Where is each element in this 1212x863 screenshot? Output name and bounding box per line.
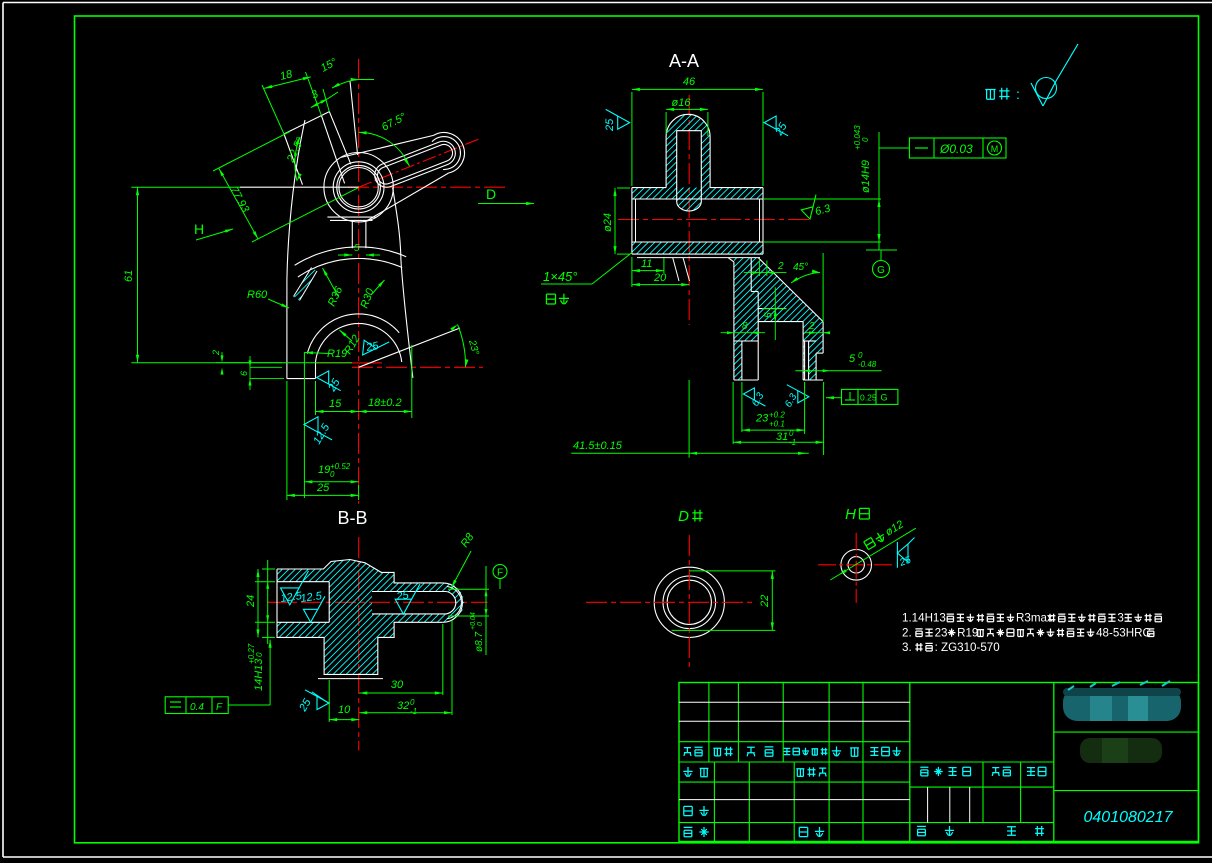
svg-text:19: 19 <box>318 464 330 476</box>
svg-text:10: 10 <box>338 704 351 716</box>
svg-text:30: 30 <box>391 679 404 691</box>
svg-text:31: 31 <box>776 431 788 443</box>
svg-text:32: 32 <box>397 700 409 712</box>
svg-text:18±0.2: 18±0.2 <box>368 397 402 409</box>
svg-text:0: 0 <box>410 698 415 707</box>
svg-text:F: F <box>216 702 223 713</box>
svg-text:2: 2 <box>808 321 815 332</box>
svg-text:0: 0 <box>858 351 863 360</box>
svg-text:20: 20 <box>653 272 667 284</box>
svg-text:24: 24 <box>245 595 257 608</box>
svg-text:25: 25 <box>395 589 411 603</box>
svg-text:D: D <box>486 186 496 202</box>
svg-text:6: 6 <box>239 371 249 376</box>
svg-text:45°: 45° <box>793 262 808 273</box>
svg-text:H: H <box>194 221 204 237</box>
svg-text:8: 8 <box>742 321 748 332</box>
svg-text:Ø0.03: Ø0.03 <box>939 142 973 156</box>
svg-text:G: G <box>877 265 885 276</box>
svg-text::: : <box>1016 86 1020 102</box>
svg-text:+0.1: +0.1 <box>769 420 785 429</box>
svg-text:22: 22 <box>759 595 771 608</box>
svg-text:ø16: ø16 <box>672 97 692 109</box>
svg-text:G: G <box>881 393 888 403</box>
svg-text:15: 15 <box>329 398 342 410</box>
svg-text:0.4: 0.4 <box>190 702 204 713</box>
svg-text:2: 2 <box>777 261 784 272</box>
svg-text:0.25: 0.25 <box>860 393 877 403</box>
svg-text:5: 5 <box>849 353 856 365</box>
svg-text:23: 23 <box>755 413 769 425</box>
svg-text:1×45°: 1×45° <box>543 269 577 284</box>
svg-text:25: 25 <box>316 482 330 494</box>
svg-text:2: 2 <box>211 350 221 356</box>
svg-text:5: 5 <box>354 243 360 254</box>
svg-text:61: 61 <box>123 270 135 282</box>
svg-text:+0.2: +0.2 <box>769 411 785 420</box>
svg-text:1.14H13: 1.14H13 <box>902 612 946 625</box>
svg-text:-1: -1 <box>410 707 417 716</box>
svg-text:: ZG310-570: : ZG310-570 <box>935 641 1000 654</box>
svg-text:3: 3 <box>1117 612 1123 625</box>
svg-text:M: M <box>991 144 999 154</box>
svg-text:ø24: ø24 <box>602 213 614 232</box>
svg-text:-1: -1 <box>789 438 796 447</box>
svg-text:5: 5 <box>764 312 775 318</box>
svg-text:R60: R60 <box>247 289 268 301</box>
svg-text:A-A: A-A <box>669 51 699 71</box>
svg-text:41.5±0.15: 41.5±0.15 <box>573 440 623 452</box>
svg-text:3.: 3. <box>902 641 912 654</box>
svg-text:48-53HRC: 48-53HRC <box>1096 626 1151 639</box>
svg-text:0: 0 <box>477 622 484 626</box>
svg-text:0: 0 <box>861 137 870 142</box>
svg-text:2.: 2. <box>902 626 912 639</box>
svg-text:+0.043: +0.043 <box>853 125 862 150</box>
svg-text:B-B: B-B <box>337 508 367 528</box>
svg-text:-0.48: -0.48 <box>858 360 877 369</box>
svg-text:R3max: R3max <box>1016 612 1053 625</box>
svg-text:H: H <box>845 506 856 523</box>
svg-text:0: 0 <box>255 652 264 657</box>
svg-text:11: 11 <box>641 258 652 270</box>
svg-text:0401080217: 0401080217 <box>1084 809 1174 826</box>
svg-text:D: D <box>678 508 689 525</box>
svg-text:0: 0 <box>789 429 794 438</box>
svg-text:+0.04: +0.04 <box>470 612 477 630</box>
svg-text:25: 25 <box>604 118 616 132</box>
svg-text:23: 23 <box>935 626 948 639</box>
svg-text:ø8.7: ø8.7 <box>474 632 485 652</box>
svg-text:ø14H9: ø14H9 <box>860 160 872 193</box>
svg-text:F: F <box>497 568 503 579</box>
svg-text:0: 0 <box>330 470 335 479</box>
svg-text:46: 46 <box>683 76 696 88</box>
svg-text:R19: R19 <box>957 626 978 639</box>
